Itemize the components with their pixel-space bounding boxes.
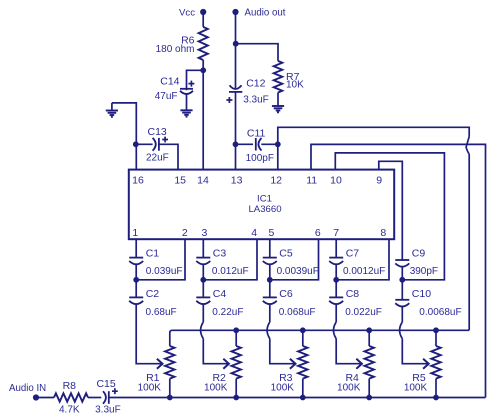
svg-text:15: 15 — [174, 175, 186, 187]
wire pin 10 net — [335, 153, 444, 280]
svg-text:Vcc: Vcc — [179, 8, 195, 19]
wire to C11 — [236, 143, 254, 145]
R4 wiper arrow — [356, 359, 362, 369]
wire C12 to pin 13 — [235, 92, 237, 170]
wire R8 to C15 — [88, 397, 101, 399]
svg-text:100K: 100K — [204, 382, 228, 393]
node C11 right — [275, 141, 281, 147]
svg-text:0.068uF: 0.068uF — [279, 307, 316, 318]
resistor R1 — [165, 346, 174, 379]
svg-text:180 ohm: 180 ohm — [156, 44, 195, 55]
capacitor C14 — [180, 88, 193, 90]
resistor R4 — [365, 346, 374, 379]
svg-text:100K: 100K — [404, 382, 428, 393]
capacitor C7 — [329, 257, 343, 259]
svg-text:C14: C14 — [160, 76, 179, 88]
node R5 top — [433, 327, 439, 333]
wire R4 bottom lead — [368, 379, 370, 398]
svg-text:C4: C4 — [213, 288, 227, 300]
wire hop over rail — [201, 322, 204, 339]
svg-text:9: 9 — [376, 175, 382, 187]
wire junction to C14 — [187, 70, 204, 90]
svg-text:10: 10 — [330, 175, 342, 187]
wire R2 top lead — [235, 330, 237, 346]
wire node to C2 — [135, 280, 137, 298]
svg-text:0.0039uF: 0.0039uF — [277, 266, 319, 277]
resistor R3 — [298, 346, 307, 379]
node C13 left — [133, 141, 139, 147]
svg-text:0.68uF: 0.68uF — [146, 307, 177, 318]
capacitor C6 — [263, 296, 277, 298]
svg-text:C6: C6 — [279, 288, 293, 300]
ground below R7 — [272, 105, 284, 107]
Vcc terminal node — [200, 9, 206, 15]
svg-text:C13: C13 — [148, 126, 167, 138]
svg-text:C11: C11 — [247, 128, 266, 140]
Audio out terminal node — [232, 9, 238, 15]
wire pin 2 — [136, 239, 185, 280]
wire pin 1 — [135, 239, 137, 257]
svg-text:Audio out: Audio out — [245, 8, 286, 19]
svg-text:22uF: 22uF — [146, 153, 169, 164]
capacitor C15 plus — [112, 388, 118, 394]
wire C3 to node — [202, 265, 204, 280]
svg-text:3.3uF: 3.3uF — [95, 404, 121, 415]
capacitor C14 plus — [188, 81, 194, 87]
svg-text:100K: 100K — [337, 382, 361, 393]
wire C6 down — [269, 305, 271, 322]
svg-text:6: 6 — [315, 227, 321, 239]
svg-text:2: 2 — [182, 227, 188, 239]
wire C14 to ground — [186, 94, 188, 110]
svg-text:11: 11 — [306, 175, 317, 187]
svg-text:3.3uF: 3.3uF — [243, 95, 269, 106]
svg-text:LA3660: LA3660 — [248, 204, 281, 215]
svg-text:3: 3 — [201, 227, 207, 239]
wire pin 12 net descent — [468, 154, 470, 330]
svg-text:4: 4 — [251, 227, 257, 239]
wire node to C8 — [335, 280, 337, 298]
resistor R7 — [274, 61, 283, 93]
capacitor C9 — [395, 259, 409, 261]
wire hop pin12 over pin11 — [466, 137, 469, 155]
Audio IN terminal node — [33, 394, 39, 400]
op-amp IC1 LA3660 body — [129, 170, 394, 240]
node junction audio out — [233, 41, 239, 47]
R5 wiper arrow — [423, 359, 429, 369]
wire pin 12 net — [278, 127, 469, 169]
wire hop over rail — [267, 322, 270, 339]
wire ground stem — [111, 103, 113, 111]
svg-text:0.012uF: 0.012uF — [212, 266, 249, 277]
wire pin 5 — [269, 239, 271, 257]
wire C7 to node — [335, 265, 337, 280]
wire hop over rail — [400, 322, 403, 339]
ground top-left — [106, 110, 118, 112]
node junction R6/C14 — [200, 67, 206, 73]
node R2 bottom — [233, 395, 239, 401]
resistor R8 — [54, 393, 88, 401]
svg-text:C5: C5 — [279, 248, 293, 260]
svg-text:1: 1 — [132, 227, 138, 239]
svg-text:C7: C7 — [346, 248, 360, 260]
wire C4 down — [202, 305, 204, 322]
svg-text:14: 14 — [197, 175, 209, 187]
wire to R4 wiper — [336, 339, 361, 364]
wire C10 down — [401, 307, 403, 322]
svg-text:100pF: 100pF — [246, 153, 274, 164]
svg-text:IC1: IC1 — [257, 194, 272, 205]
svg-text:C3: C3 — [213, 248, 227, 260]
wire to R2 wiper — [203, 339, 228, 364]
ground below C14 — [180, 109, 192, 111]
svg-text:C12: C12 — [246, 78, 265, 90]
svg-text:10K: 10K — [286, 80, 304, 91]
wire to R3 wiper — [270, 339, 295, 364]
wire C5 to node — [269, 265, 271, 280]
svg-text:100K: 100K — [138, 382, 162, 393]
wire Audio out to C12 — [235, 12, 237, 88]
svg-text:0.022uF: 0.022uF — [345, 307, 382, 318]
wire pin 7 — [335, 239, 337, 257]
node R3 bottom — [300, 395, 306, 401]
wire R6 to pin 14 — [202, 60, 204, 170]
wire top rail pin12 bus — [170, 330, 469, 346]
wire pin 9 net — [379, 161, 403, 260]
svg-text:0.0068uF: 0.0068uF — [419, 307, 461, 318]
capacitor C11 — [255, 138, 257, 151]
node R2 top — [233, 327, 239, 333]
wire pin 6 — [270, 239, 319, 280]
wire C13 to pin 15 — [159, 144, 178, 169]
capacitor C12 plus — [226, 97, 232, 103]
wire junction to R7 — [236, 44, 278, 61]
wire R2 bottom lead — [235, 379, 237, 398]
wire R3 bottom lead — [302, 379, 304, 398]
wire C9 to node — [401, 267, 403, 279]
R1 wiper arrow — [157, 359, 163, 369]
node R5 bottom — [433, 395, 439, 401]
node R4 top — [366, 327, 372, 333]
capacitor C13 — [153, 138, 156, 151]
wire R5 top lead — [435, 330, 437, 346]
wire node to C6 — [269, 280, 271, 298]
wire hop over rail — [334, 322, 337, 339]
wire R1 bottom lead — [169, 379, 171, 398]
svg-text:16: 16 — [132, 175, 144, 187]
svg-text:8: 8 — [380, 227, 386, 239]
capacitor C4 — [196, 296, 210, 298]
resistor R5 — [431, 346, 440, 379]
svg-text:Audio IN: Audio IN — [9, 383, 46, 394]
wire node to C4 — [202, 280, 204, 298]
resistor R6 — [199, 27, 208, 60]
svg-text:7: 7 — [333, 227, 339, 239]
resistor R2 — [232, 346, 241, 379]
wire pin 3 — [202, 239, 204, 257]
wire ground to pin 16 — [112, 103, 136, 170]
svg-text:0.22uF: 0.22uF — [212, 307, 243, 318]
node R1 bottom — [167, 395, 173, 401]
node R3 top — [300, 327, 306, 333]
wire bottom rail — [109, 397, 486, 399]
wire node to C10 — [401, 280, 403, 300]
svg-text:12: 12 — [270, 175, 282, 187]
wire R3 top lead — [302, 330, 304, 346]
svg-text:R8: R8 — [63, 380, 77, 392]
wire pin 4 — [203, 239, 257, 280]
wire pin 8 — [336, 239, 389, 280]
capacitor C12 — [230, 85, 242, 89]
wire R4 top lead — [368, 330, 370, 346]
svg-text:5: 5 — [268, 227, 274, 239]
svg-text:100K: 100K — [271, 382, 295, 393]
svg-text:C15: C15 — [96, 378, 115, 390]
capacitor C10 — [395, 299, 409, 301]
node pins 1-2 — [133, 277, 139, 283]
wire to R5 wiper — [402, 339, 428, 364]
capacitor C13 plus — [162, 137, 168, 143]
wire Audio IN to R8 — [36, 397, 54, 399]
wire C2 to R1 wiper — [136, 305, 162, 364]
svg-text:C2: C2 — [146, 288, 160, 300]
svg-text:390pF: 390pF — [410, 266, 438, 277]
capacitor C1 — [129, 257, 143, 259]
wire C11 to pin 12 net — [261, 143, 278, 145]
svg-text:4.7K: 4.7K — [59, 404, 80, 415]
svg-text:13: 13 — [231, 175, 243, 187]
node pins 7-8 — [333, 277, 339, 283]
wire C1 to node — [135, 265, 137, 280]
svg-text:C1: C1 — [146, 248, 160, 260]
svg-text:47uF: 47uF — [155, 91, 178, 102]
capacitor C8 — [329, 296, 343, 298]
capacitor C15 — [103, 391, 106, 403]
svg-text:0.039uF: 0.039uF — [146, 266, 183, 277]
capacitor C2 — [129, 296, 143, 298]
wire C8 down — [335, 305, 337, 322]
svg-text:C8: C8 — [346, 288, 360, 300]
svg-text:C9: C9 — [412, 248, 426, 260]
wire R7 to ground — [277, 93, 279, 106]
wire R5 bottom lead — [435, 379, 437, 398]
R3 wiper arrow — [290, 359, 296, 369]
node C11 left — [233, 141, 239, 147]
node pins 3-4 — [200, 277, 206, 283]
wire pin 11 net — [311, 144, 486, 397]
capacitor C5 — [263, 257, 277, 259]
wire to C13 — [136, 143, 153, 145]
R2 wiper arrow — [223, 359, 229, 369]
node pins 5-6 — [267, 277, 273, 283]
node pins 9-10 — [399, 277, 405, 283]
wire Vcc to R6 — [202, 12, 204, 27]
svg-text:C10: C10 — [412, 288, 431, 300]
node R4 bottom — [366, 395, 372, 401]
svg-text:0.0012uF: 0.0012uF — [343, 266, 385, 277]
capacitor C3 — [196, 257, 210, 259]
